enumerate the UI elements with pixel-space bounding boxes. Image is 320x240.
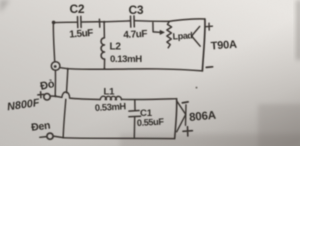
minus sign woofer (182, 102, 188, 103)
terminal post C (black) (47, 133, 53, 139)
wire: Lpad corner to tweeter top (169, 19, 205, 21)
wire post A down to + post wire (54, 71, 56, 96)
plus sign tweeter (206, 23, 213, 30)
plus sign woofer (183, 127, 192, 136)
inductor L1 coil (100, 96, 121, 100)
wire: return (bottom of top circuit) (60, 68, 202, 71)
node tick (98, 19, 100, 27)
capacitor C1 plates (129, 111, 141, 117)
wire: L1 to woofer corner (121, 98, 176, 101)
svg-text:L1: L1 (104, 86, 116, 97)
wire: tweeter right vertical (202, 19, 205, 71)
svg-text:0.13mH: 0.13mH (110, 54, 142, 65)
terminal post A (51, 62, 60, 71)
svg-text:806A: 806A (189, 110, 217, 124)
wire: C2 to C3 (81, 21, 130, 22)
bus wire down (upper) (67, 69, 68, 93)
svg-text:0.55uF: 0.55uF (137, 117, 165, 128)
wire stub left of black post (40, 136, 47, 139)
wire: bottom return (63, 137, 175, 140)
node dot top-left corner (52, 21, 56, 25)
paper background (0, 0, 300, 146)
svg-text:Lpad: Lpad (172, 30, 192, 41)
capacitor C1 tap (134, 100, 136, 110)
svg-text:C2: C2 (70, 2, 85, 16)
svg-text:L2: L2 (110, 42, 122, 53)
svg-text:4.7uF: 4.7uF (123, 29, 148, 41)
wire from + post with hop over bus (50, 92, 100, 100)
wire from black post to bus (53, 136, 63, 138)
resistor Lpad (167, 22, 172, 48)
junction dot at post A feed (54, 95, 56, 97)
Lpad arrow annotation (153, 23, 160, 33)
inductor L2 tap wire (103, 22, 105, 38)
terminal post B (red +) (44, 94, 50, 100)
capacitor C1 lower wire (133, 117, 135, 138)
bus wire down (lower) (63, 99, 66, 137)
speaker 806 woofer (177, 101, 186, 132)
wire top: input corner to C2 (53, 21, 77, 24)
input left vertical wire (53, 23, 54, 62)
svg-text:Đen: Đen (31, 120, 51, 134)
stray pen dot (196, 87, 198, 89)
wire: woofer right vertical (175, 99, 177, 139)
svg-text:1.5uF: 1.5uF (69, 28, 94, 41)
speaker T90 tweeter (192, 26, 201, 46)
minus sign tweeter (206, 66, 212, 69)
svg-text:C3: C3 (129, 3, 144, 17)
inductor L2 lower wire (103, 59, 105, 69)
svg-text:0.53mH: 0.53mH (95, 100, 127, 113)
capacitor C3 (131, 16, 135, 27)
wire: C3 to Lpad corner (134, 20, 169, 23)
capacitor C2 (78, 16, 82, 27)
plus sign input (38, 92, 44, 98)
svg-text:T90A: T90A (210, 39, 237, 53)
inductor L2 coil (101, 38, 105, 59)
